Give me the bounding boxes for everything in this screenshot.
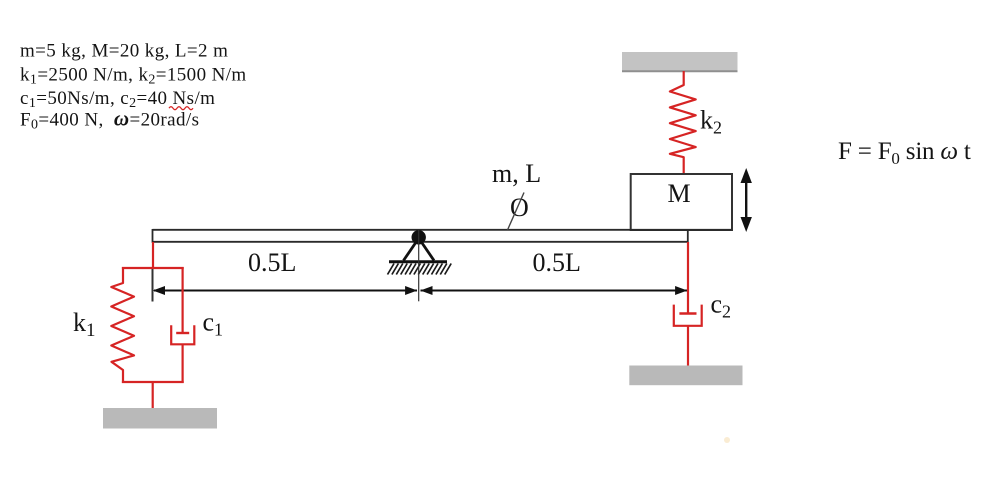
damper c1 lower rod: [182, 344, 184, 383]
damper c2 piston plate: [679, 312, 696, 314]
leader line from O to beam: [508, 193, 525, 231]
dimension tick at left end: [152, 269, 154, 302]
svg-text:k1=2500 N/m, k2=1500 N/m: k1=2500 N/m, k2=1500 N/m: [20, 65, 247, 88]
svg-text:0.5L: 0.5L: [533, 248, 581, 277]
ceiling block (hatched support, top right): [622, 52, 738, 71]
svg-text:F = F0 sin ω t: F = F0 sin ω t: [838, 138, 971, 168]
spring k2: [670, 71, 696, 174]
pivot centerline: [418, 230, 420, 301]
pivot pin (black circle): [412, 230, 426, 244]
svg-text:c2: c2: [711, 290, 732, 322]
damper c2 lower rod: [687, 326, 689, 366]
faint artifact dot: [724, 437, 730, 443]
right dimension arrowhead (left): [420, 286, 432, 295]
beam right end cap: [687, 229, 689, 243]
damper c1 piston plate: [176, 332, 189, 334]
bottom bar of spring-damper frame: [122, 381, 184, 383]
svg-text:0.5L: 0.5L: [248, 248, 296, 277]
spellcheck wavy underline under Ns: [169, 107, 193, 110]
bottom stem to ground: [152, 382, 154, 409]
top bar of spring-damper frame: [122, 267, 184, 269]
svg-text:k2: k2: [700, 106, 722, 138]
svg-text:c1: c1: [203, 308, 224, 340]
left assembly: red frame top stem: [152, 242, 154, 268]
svg-text:m=5 kg, M=20 kg, L=2 m: m=5 kg, M=20 kg, L=2 m: [20, 41, 228, 62]
right dimension line: [421, 290, 688, 292]
spring k1: [111, 267, 134, 383]
damper c1 cup: [171, 325, 194, 344]
damper c1 piston rod: [182, 267, 184, 333]
left ground block: [103, 408, 217, 429]
svg-text:F0=400 N, ω=20rad/s: F0=400 N, ω=20rad/s: [20, 107, 199, 133]
svg-text:k1: k1: [73, 308, 96, 341]
right ground block: [629, 366, 742, 386]
pivot ground hatching: [388, 264, 452, 275]
right dimension arrowhead (right): [675, 286, 687, 295]
pivot triangle legs: [404, 243, 416, 261]
beam left end cap: [152, 229, 154, 243]
damper c2 cup: [674, 305, 702, 326]
pivot base line: [389, 260, 447, 263]
beam bottom line: [153, 241, 688, 243]
mass block M: [631, 174, 732, 230]
svg-text:M: M: [668, 179, 691, 208]
vertical double arrow beside M: [745, 180, 747, 220]
beam (rod m, L) top line: [153, 229, 732, 231]
left dimension line: [154, 290, 417, 292]
left dimension arrowhead (left): [153, 286, 165, 295]
svg-text:m, L: m, L: [492, 159, 541, 188]
left dimension arrowhead (right): [405, 286, 417, 295]
right damper rod from beam: [687, 242, 689, 314]
